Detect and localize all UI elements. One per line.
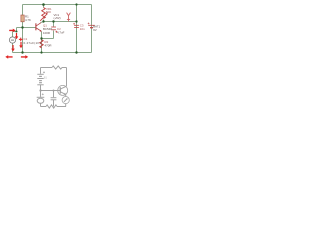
svg-text:9V: 9V [93, 28, 97, 32]
svg-text:(+5V): (+5V) [54, 16, 61, 20]
svg-text:4.7K: 4.7K [25, 18, 31, 22]
svg-text:10n: 10n [80, 27, 85, 31]
svg-text:50K: 50K [46, 10, 51, 14]
svg-text:0.47uF(1K): 0.47uF(1K) [24, 41, 41, 45]
svg-text:B1: B1 [44, 76, 48, 80]
svg-text:100R: 100R [43, 31, 50, 35]
svg-text:4.7uF: 4.7uF [57, 30, 65, 34]
svg-text:470R: 470R [45, 44, 52, 48]
